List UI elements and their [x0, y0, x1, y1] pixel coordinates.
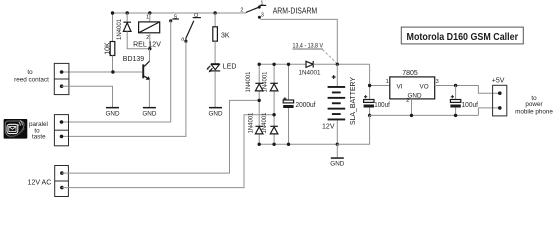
svg-text:1: 1 — [260, 1, 263, 7]
svg-text:12V AC: 12V AC — [28, 179, 52, 186]
svg-text:LED: LED — [223, 63, 237, 70]
relay contact S — [169, 19, 172, 22]
svg-text:100uf: 100uf — [462, 102, 479, 109]
wire 10K bottom — [112, 56, 114, 73]
connector X4 +5V output — [493, 85, 507, 116]
resistor 10K — [110, 42, 115, 56]
phone icon bitmap — [4, 119, 28, 139]
node 2000uf bottom — [287, 143, 290, 146]
node cap1 bottom rail — [368, 114, 371, 117]
ground at reed return — [106, 107, 119, 109]
diode D2 1N4001 series — [306, 61, 313, 67]
diode D4 1N4001 upper-right — [270, 82, 278, 84]
svg-text:Motorola D160 GSM Caller: Motorola D160 GSM Caller — [407, 31, 519, 43]
svg-text:1: 1 — [146, 15, 149, 21]
capacitor C2 100uf — [455, 86, 457, 116]
svg-text:+5V: +5V — [492, 78, 505, 85]
svg-text:2000uf: 2000uf — [296, 102, 316, 109]
svg-text:1N4001: 1N4001 — [299, 69, 322, 76]
svg-text:REL 12V: REL 12V — [133, 41, 161, 48]
switch ARM-DISARM — [246, 7, 259, 12]
wire contact a to paralel bottom pin — [62, 41, 186, 136]
wire contact S to paralel top pin — [62, 21, 171, 122]
svg-text:100uf: 100uf — [374, 102, 390, 109]
battery SLA 12V — [336, 64, 338, 86]
node top rail / 3K — [213, 11, 216, 14]
wire bridge top rail — [258, 63, 306, 65]
svg-text:12V: 12V — [322, 123, 335, 130]
node relay pin2 / D1 / collector — [148, 47, 151, 50]
connector X1 to reed contact — [54, 63, 69, 94]
svg-text:1N4001: 1N4001 — [117, 18, 123, 40]
svg-text:GND: GND — [142, 110, 156, 117]
node bridge top right — [272, 63, 275, 66]
node 7805 gnd / rail — [410, 114, 413, 117]
node bridge bottom right — [272, 143, 275, 146]
wire AC phase 2 — [62, 115, 274, 188]
wire battery minus link — [337, 115, 369, 144]
svg-text:GND: GND — [330, 161, 344, 168]
wire bottom rail 7805 section — [370, 114, 479, 116]
svg-text:GND: GND — [408, 92, 422, 99]
node cap2 bottom — [454, 114, 457, 117]
wire reed bottom to ground — [62, 86, 113, 107]
wire 7805 output — [435, 86, 500, 94]
capacitor C1 100uf — [364, 100, 374, 103]
relay coil REL 12V — [149, 13, 151, 22]
svg-text:1N4001: 1N4001 — [246, 71, 252, 93]
node bridge top left — [258, 63, 261, 66]
title box Motorola D160 GSM Caller — [401, 27, 523, 44]
regulator U1 7805 — [390, 77, 435, 99]
connector X2 paralel to taste — [54, 115, 68, 146]
node AC1 / left column — [258, 99, 261, 102]
svg-text:VO: VO — [420, 83, 429, 90]
svg-text:VI: VI — [397, 83, 403, 90]
svg-text:13,4 - 13,8 V: 13,4 - 13,8 V — [293, 43, 324, 50]
svg-text:1: 1 — [386, 79, 389, 85]
wire input rail to 7805 — [370, 64, 390, 115]
svg-text:to: to — [27, 69, 33, 76]
svg-text:GND: GND — [209, 110, 223, 117]
svg-text:1N4001: 1N4001 — [263, 71, 269, 93]
svg-text:7805: 7805 — [402, 70, 418, 77]
diode D3 1N4001 upper-left — [255, 82, 263, 84]
node output / cap2 — [454, 84, 457, 87]
ground at battery — [336, 144, 338, 157]
wire base from reed connector — [62, 71, 143, 73]
transistor Q1 BD139 — [149, 49, 151, 62]
node battery / arm wire / rail — [336, 63, 339, 66]
node base / 10K bottom — [111, 70, 114, 73]
svg-text:3: 3 — [261, 13, 264, 19]
svg-text:2: 2 — [240, 7, 243, 13]
node 7805 input / cap1 — [368, 84, 371, 87]
bridge left column wires — [258, 64, 260, 144]
svg-text:3: 3 — [436, 79, 439, 85]
diode D6 1N4001 lower-right — [270, 125, 278, 127]
wire bridge bottom rail — [259, 143, 337, 145]
diode D1 1N4001 flyback — [126, 13, 128, 22]
connector X3 12V AC — [55, 166, 69, 197]
svg-text:BD139: BD139 — [123, 56, 145, 63]
bridge right column wires — [273, 64, 275, 144]
ground at emitter — [143, 107, 156, 109]
svg-text:SLA_BATTERY: SLA_BATTERY — [350, 77, 357, 125]
node top rail / 10K — [111, 11, 114, 14]
svg-text:1N4001: 1N4001 — [262, 112, 268, 134]
svg-text:mobile phone: mobile phone — [515, 108, 553, 115]
svg-text:1N4001: 1N4001 — [249, 112, 255, 134]
capacitor 2000uf — [288, 64, 290, 100]
wire AC phase 1 — [62, 100, 259, 173]
relay contact lever a — [186, 21, 194, 39]
wire top 12V rail — [113, 12, 246, 14]
node 2000uf top — [287, 63, 290, 66]
svg-text:power: power — [525, 101, 542, 108]
node top rail / relay pin1 — [148, 11, 151, 14]
wire switch pin3 to battery node — [260, 19, 337, 65]
wire 7805 gnd pin — [411, 99, 413, 116]
node battery minus / rail — [336, 143, 339, 146]
svg-text:2: 2 — [406, 98, 409, 104]
svg-text:GND: GND — [106, 110, 120, 117]
svg-text:3K: 3K — [221, 33, 230, 40]
wire 10K top — [112, 13, 114, 42]
node bridge bottom left — [258, 143, 261, 146]
svg-text:2: 2 — [146, 35, 149, 41]
svg-text:reed contact: reed contact — [14, 76, 49, 83]
svg-text:taste: taste — [32, 134, 46, 141]
node AC2 / right column — [272, 113, 275, 116]
svg-text:ARM-DISARM: ARM-DISARM — [273, 6, 318, 16]
diode D5 1N4001 lower-left — [255, 125, 263, 127]
wire 5V return — [478, 108, 499, 116]
ground at LED — [209, 107, 222, 109]
resistor 3K — [214, 13, 216, 27]
svg-text:10K: 10K — [104, 42, 111, 55]
node top rail / D1 — [126, 11, 129, 14]
LED indicator — [211, 63, 220, 65]
